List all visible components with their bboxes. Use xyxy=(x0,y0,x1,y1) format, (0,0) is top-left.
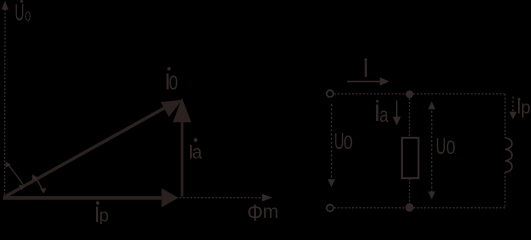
resistor R (iron-loss branch) xyxy=(402,138,419,178)
vector Ip (magnetizing current, horizontal) xyxy=(3,188,179,207)
svg-text:0: 0 xyxy=(446,137,455,158)
current arrow I (top lead) xyxy=(347,77,389,86)
svg-text:0: 0 xyxy=(169,71,178,94)
angle arc alpha (between I0 and Ip) xyxy=(32,174,46,193)
wire right upper (corner to inductor) xyxy=(504,94,506,138)
vector I0 (no-load current, diagonal) xyxy=(4,100,183,198)
wire right lower (inductor to bottom-right corner) xyxy=(504,172,506,208)
svg-text:p: p xyxy=(99,205,109,224)
terminal bottom-left (open circle) xyxy=(327,205,334,212)
svg-text:0: 0 xyxy=(344,132,353,153)
label U0 (left) xyxy=(334,130,353,155)
angle arc phi0 (between U0 axis and I0) xyxy=(5,162,24,191)
wire resistor-to-bottom-node xyxy=(409,178,411,207)
svg-text:U: U xyxy=(15,0,25,27)
label Ip (vector) xyxy=(94,201,109,227)
current arrow Ip (into inductor) xyxy=(509,97,517,120)
terminal top-left (open circle) xyxy=(327,90,334,97)
label I0 (vector, with phasor dot) xyxy=(164,67,178,94)
voltage arrow U0 (left, dashed, down) xyxy=(328,104,336,187)
U0 axis (vertical) xyxy=(2,1,9,198)
label Phi_m xyxy=(247,200,279,226)
label U0 (middle) xyxy=(436,135,456,160)
wire top (terminal to top-right corner) xyxy=(334,93,505,95)
label Ia (vector) xyxy=(188,138,202,164)
node junction top xyxy=(406,90,414,98)
svg-text:I: I xyxy=(363,57,369,82)
wire junction-to-resistor xyxy=(409,95,411,138)
svg-text:U: U xyxy=(436,135,446,160)
vector Ia (active component, vertical) xyxy=(173,98,192,197)
wire bottom (bottom-right corner to terminal) xyxy=(334,207,505,209)
svg-text:Φ: Φ xyxy=(247,200,263,224)
label U0 (axis, with phasor dot) xyxy=(15,0,31,27)
label Ip (right, with dot) xyxy=(516,97,530,118)
svg-text:m: m xyxy=(263,202,279,223)
svg-text:a: a xyxy=(379,103,388,127)
label I (top lead, with phasor dot) xyxy=(363,57,369,82)
svg-text:a: a xyxy=(192,141,203,163)
label Ia (circuit, with dot) xyxy=(374,100,389,127)
Phi_m axis (horizontal) xyxy=(3,194,273,202)
node junction bottom xyxy=(405,203,413,211)
svg-text:0: 0 xyxy=(25,9,31,24)
voltage arrow U0 (middle, dashed, double-headed) xyxy=(428,101,435,199)
current arrow Ia (into resistor) xyxy=(393,101,401,126)
svg-text:p: p xyxy=(521,97,531,118)
inductor L (magnetizing branch, 3 loops) xyxy=(505,138,512,172)
